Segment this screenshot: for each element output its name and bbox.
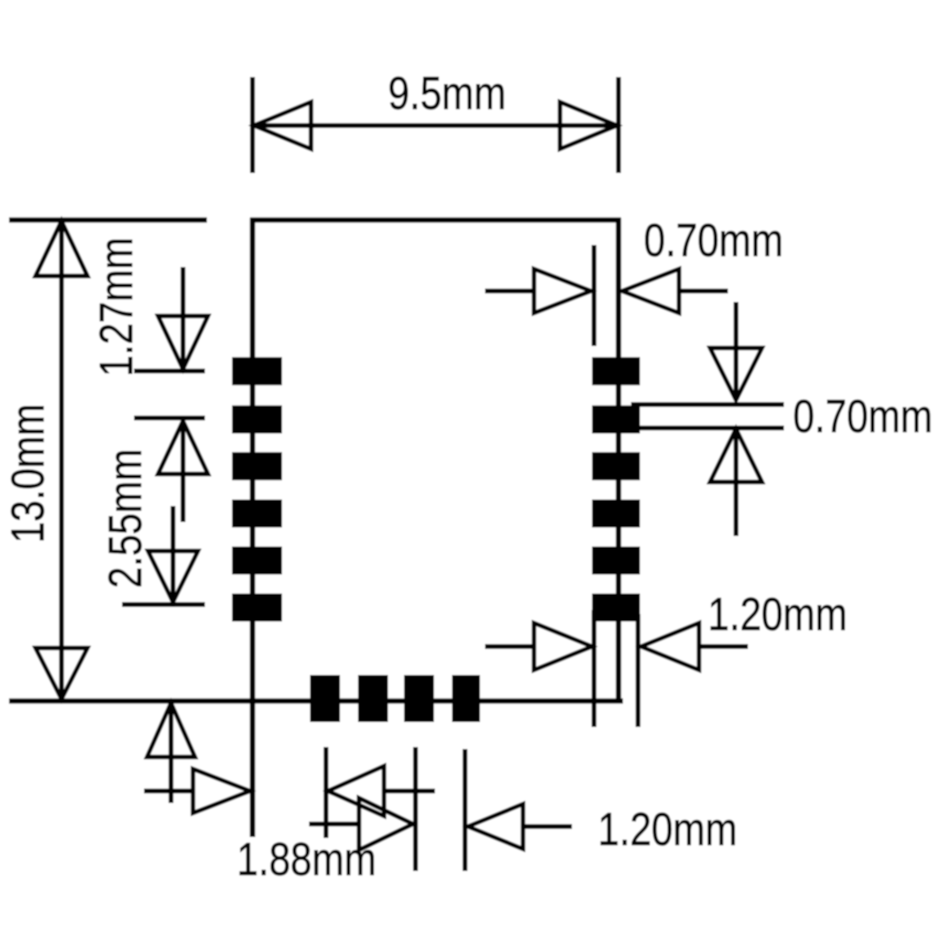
- left pad 4: [232, 500, 282, 528]
- bottom-left right-pointing arrowhead (1.88mm): [193, 769, 250, 813]
- right pad 2: [592, 405, 640, 433]
- 1.88mm extension line (bottom pad1 centre): [324, 747, 329, 838]
- module outline top edge: [250, 217, 621, 222]
- svg-text:1.27mm: 1.27mm: [91, 237, 142, 377]
- svg-text:1.20mm: 1.20mm: [708, 589, 848, 640]
- 0.70mm top left-pointing arrowhead: [622, 269, 679, 313]
- svg-text:1.88mm: 1.88mm: [237, 834, 377, 885]
- right pad 1: [592, 357, 640, 385]
- 1.20mm right left-pointing arrowhead: [641, 623, 699, 670]
- 1.20mm bottom left arrow tail: [523, 824, 572, 829]
- 1.88mm left-pointing arrowhead: [328, 766, 384, 816]
- bottom-left right arrow tail: [144, 789, 193, 794]
- 0.70mm top extension line: [592, 245, 597, 346]
- 9.5mm dimension line: [255, 123, 616, 128]
- 0.70mm right down arrow shaft: [734, 302, 739, 398]
- 9.5mm left extension line: [250, 77, 255, 173]
- 2.55mm up arrow shaft: [181, 423, 186, 522]
- 0.70mm right up arrow shaft: [734, 431, 739, 536]
- 2.55mm up arrowhead: [158, 421, 208, 474]
- 1.20mm right left arrow tail: [485, 644, 534, 649]
- left pad 1: [232, 357, 282, 385]
- 2.55mm down arrow shaft: [171, 506, 176, 600]
- 9.5mm left arrowhead: [254, 102, 311, 149]
- 13.0mm top tick line: [9, 217, 207, 222]
- 0.70mm right upper line (pad2 top edge): [631, 402, 784, 407]
- 2.55mm down arrowhead: [148, 551, 198, 602]
- 0.70mm right lower line (pad2 bottom edge): [631, 426, 784, 431]
- 9.5mm right extension line: [616, 77, 621, 173]
- left pad 3: [232, 452, 282, 480]
- right pad 5: [592, 547, 640, 575]
- bottom pad 2: [358, 675, 388, 722]
- 0.70mm right up arrowhead: [710, 429, 762, 482]
- bottom pad 3: [404, 675, 434, 722]
- 13.0mm down arrowhead: [36, 648, 88, 699]
- 1.20mm bottom right arrow tail: [309, 822, 359, 827]
- right pad 3: [592, 452, 640, 480]
- 1.20mm bottom right-pointing arrowhead: [359, 798, 413, 850]
- left pad 5: [232, 547, 282, 575]
- bottom horizontal line: [9, 698, 623, 703]
- right pad 4: [592, 500, 640, 528]
- svg-text:2.55mm: 2.55mm: [100, 449, 151, 589]
- 2.55mm bottom tick (pad6 centre): [122, 602, 205, 607]
- svg-text:0.70mm: 0.70mm: [644, 215, 784, 266]
- 0.70mm top right arrow tail: [679, 289, 728, 294]
- 1.20mm bottom left-pointing arrowhead: [468, 804, 523, 849]
- 13.0mm up arrowhead: [36, 221, 88, 276]
- 1.20mm right right arrow tail: [699, 644, 748, 649]
- bottom-left up arrowhead: [147, 703, 195, 757]
- module outline left edge (extends down as 1.88mm extension line): [250, 218, 255, 837]
- bottom pad 4: [452, 675, 480, 722]
- 1.27mm/2.55mm tick (pad2 centre): [134, 416, 205, 421]
- 1.88mm left arrow tail: [384, 789, 435, 794]
- svg-text:0.70mm: 0.70mm: [793, 391, 933, 442]
- 1.20mm bottom extension line (bottom pad3 centre): [413, 747, 418, 871]
- 1.20mm right right-pointing arrowhead: [534, 623, 592, 670]
- 1.27mm down arrowhead: [158, 316, 208, 369]
- bottom-left up arrow shaft: [169, 705, 174, 803]
- svg-text:13.0mm: 13.0mm: [2, 404, 53, 544]
- 0.70mm right down arrowhead: [710, 348, 762, 400]
- svg-text:1.20mm: 1.20mm: [598, 804, 738, 855]
- right pad 6: [592, 594, 640, 622]
- 0.70mm top left arrow tail: [485, 289, 534, 294]
- 1.27mm tick (pad1 centre): [134, 369, 205, 374]
- 1.20mm right extension line left: [592, 610, 597, 727]
- 13.0mm dimension vertical line: [59, 222, 64, 699]
- bottom pad 1: [310, 675, 340, 722]
- 1.27mm upper arrow shaft: [181, 267, 186, 366]
- left pad 6: [232, 594, 282, 622]
- 1.20mm bottom extension line (bottom pad4 centre): [463, 749, 468, 871]
- 1.20mm right extension line right: [636, 614, 641, 727]
- module outline right edge: [616, 218, 621, 703]
- svg-text:9.5mm: 9.5mm: [388, 68, 506, 119]
- left pad 2: [232, 405, 282, 433]
- 9.5mm right arrowhead: [560, 102, 617, 149]
- 0.70mm top right-pointing arrowhead: [534, 269, 591, 313]
